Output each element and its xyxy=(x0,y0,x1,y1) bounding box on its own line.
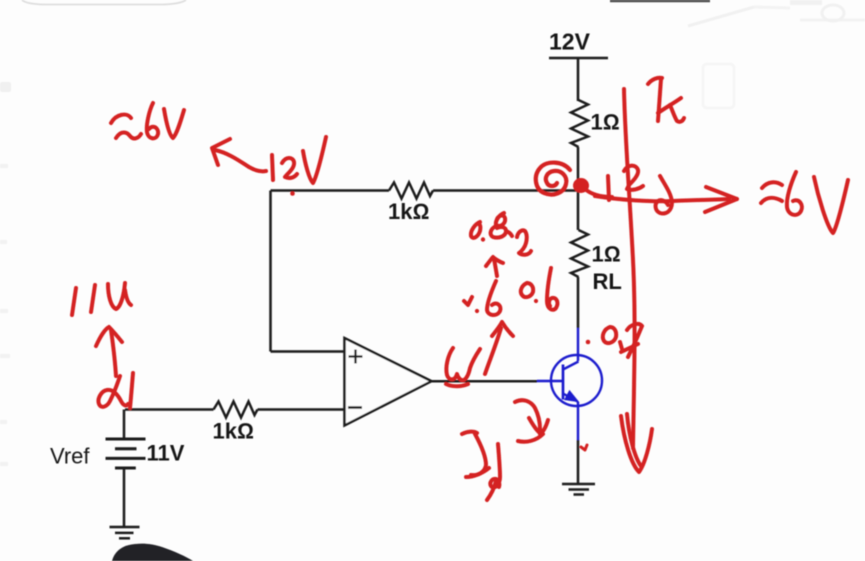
annotation 0.6 digit 0 xyxy=(521,283,533,297)
svg-text:12V: 12V xyxy=(549,29,591,55)
ground (emitter) xyxy=(562,484,595,495)
annotation ≈6V (right) tilde 1 xyxy=(762,182,782,188)
battery Vref xyxy=(106,439,146,468)
annotation 0.6 dot xyxy=(534,299,538,303)
resistor Rf 1kΩ xyxy=(389,183,433,199)
annotation Ic line xyxy=(624,89,635,448)
svg-text:Vref: Vref xyxy=(50,444,90,469)
annotation up arrow (11V) head xyxy=(96,327,122,346)
annotation ω xyxy=(446,348,480,380)
annotation 12V digit 1 xyxy=(272,155,273,180)
annotation @ spiral at node A xyxy=(536,163,570,195)
annotation ≈6V (right) tilde 2 xyxy=(761,198,782,203)
annotation squiggle after 0.8 xyxy=(517,230,531,254)
annotation ≈6V (right) digit 6 xyxy=(787,172,802,215)
wire: RL to collector xyxy=(577,277,580,328)
wire: emitter to ground xyxy=(577,440,580,484)
resistor R1 xyxy=(571,100,588,147)
annotation arrow toward ≈6V tail xyxy=(215,150,266,171)
wire: R1 to node A xyxy=(577,147,580,191)
wire: node to battery xyxy=(123,410,126,440)
annotation .6 digit 6 xyxy=(487,281,500,315)
red annotations xyxy=(72,78,848,500)
wire: − input left segment xyxy=(125,408,214,411)
ground (Vref) xyxy=(110,527,140,538)
annotation 0,7 comma xyxy=(620,342,622,349)
op-amp minus input sign xyxy=(348,406,362,409)
annotation digit 2 (node voltage 12) xyxy=(624,166,643,190)
annotation tick near emitter xyxy=(581,445,587,450)
annotation up arrow (0.8) head xyxy=(486,257,503,266)
annotation digit 1 (node voltage 12) xyxy=(608,176,609,200)
wire: rail to R1 xyxy=(577,58,580,101)
annotation Ib letter b xyxy=(490,444,500,487)
annotation wavy stroke from node dot xyxy=(585,189,612,197)
svg-text:1Ω: 1Ω xyxy=(591,110,620,135)
annotation arrow up-right shaft xyxy=(485,328,501,374)
annotation dot at node A xyxy=(573,178,589,193)
annotation dot on feedback wire xyxy=(290,191,295,196)
op-amp U1 xyxy=(345,338,432,426)
resistor Rin 1kΩ xyxy=(214,402,258,418)
annotation 11V letter V xyxy=(108,283,131,309)
wire: node A to RL xyxy=(577,191,580,231)
op-amp plus input sign xyxy=(349,350,363,364)
annotation hook arrow bottom swoosh xyxy=(518,434,543,442)
svg-text:1Ω: 1Ω xyxy=(592,242,621,267)
annotation ≈6V (left) tilde 2 xyxy=(116,133,141,139)
webcam head silhouette xyxy=(112,544,193,561)
feedback wire (top, right segment) xyxy=(433,189,578,192)
annotation 0,7 digit 0 xyxy=(603,327,616,343)
annotation 0,7 digit 7 xyxy=(621,324,642,357)
annotation node scribble alpha xyxy=(98,376,128,407)
annotation ≈6V (left) tilde 1 xyxy=(111,115,131,123)
wire: op-amp output to base xyxy=(432,380,538,383)
transistor Q1 collector lead (blue) xyxy=(577,328,579,361)
annotation node scribble l xyxy=(130,373,133,408)
annotation 11V digit 1b xyxy=(91,285,95,312)
svg-text:RL: RL xyxy=(593,269,622,294)
annotation arrow toward ≈6V head xyxy=(212,139,230,165)
annotation 0.8 digit 8 xyxy=(491,213,512,238)
wire: + input xyxy=(271,350,345,353)
annotation long arrow right shaft xyxy=(595,196,729,201)
annotation Ic line V arrowhead xyxy=(621,416,652,472)
annotation ω underline xyxy=(446,384,468,386)
annotation Ib letter I xyxy=(462,432,477,434)
annotation down arrow with curl xyxy=(656,176,672,214)
annotation arrow up-right head xyxy=(492,322,513,336)
resistor RL xyxy=(571,230,588,277)
annotation Ic label xyxy=(648,78,662,84)
annotation ≈6V (left) V xyxy=(164,109,184,138)
feedback wire (top, left segment) xyxy=(271,189,390,192)
annotation up arrow (11V) shaft xyxy=(111,330,116,376)
annotation 0,7 dot xyxy=(586,340,591,345)
annotation hook arrow shaft xyxy=(515,400,540,429)
wire: battery to ground xyxy=(123,468,126,527)
wire: − input right segment xyxy=(258,408,345,411)
annotation 11V digit 1a xyxy=(72,288,76,315)
annotation 12V digit 2 xyxy=(282,158,297,178)
annotation hook arrow head xyxy=(529,418,548,434)
annotation up arrow (0.8) shaft xyxy=(494,259,497,276)
annotation 0.8 digit 0 xyxy=(471,222,481,238)
annotation long arrow right head xyxy=(705,187,737,212)
annotation 12V letter V xyxy=(303,137,326,183)
svg-text:1kΩ: 1kΩ xyxy=(213,419,254,444)
supply rail 12V xyxy=(549,57,608,60)
svg-text:1kΩ: 1kΩ xyxy=(388,199,429,224)
transistor Q1 emitter lead (blue) xyxy=(577,402,579,440)
annotation .6 dot xyxy=(475,309,479,313)
annotation ≈6V (right) V xyxy=(814,177,848,233)
feedback wire (left vertical) xyxy=(269,191,272,352)
transistor Q1 (NPN, blue) xyxy=(537,355,602,406)
annotation 0.8 dot xyxy=(481,237,485,241)
svg-text:11V: 11V xyxy=(147,441,185,466)
annotation .6 tick xyxy=(464,297,472,305)
annotation 0.6 digit 6 xyxy=(547,268,557,310)
annotation ≈6V (left) digit 6 xyxy=(147,103,158,138)
